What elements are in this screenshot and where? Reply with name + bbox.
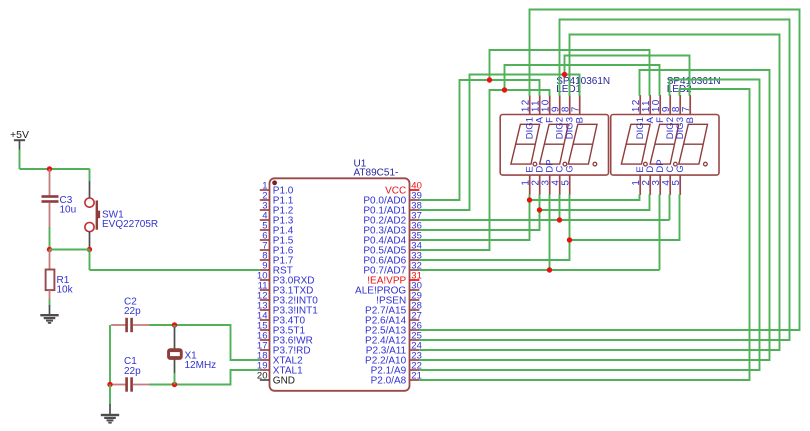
junction net D bbox=[537, 207, 542, 212]
wire net P0.3 segment D bbox=[419, 194, 649, 230]
ground below R1 bbox=[40, 300, 58, 324]
junction +5V/C3 bbox=[47, 166, 52, 171]
svg-text:22p: 22p bbox=[124, 366, 141, 377]
LED2 pin 2 D bbox=[641, 166, 656, 195]
U1 pin 19 XTAL1 bbox=[257, 361, 303, 377]
svg-text:AT89C51-: AT89C51- bbox=[354, 168, 399, 179]
junction net E bbox=[527, 197, 532, 202]
LED1 digit 1 seven-segment outline bbox=[511, 124, 540, 166]
U1 pin 16 P3.6!WR bbox=[257, 331, 313, 347]
wire net P2.4 LED1 DIG2 bbox=[419, 20, 789, 341]
U1 pin 1 P1.0 bbox=[260, 181, 294, 197]
LED2 digit 1 seven-segment outline bbox=[621, 124, 650, 166]
U1 pin 31 !EA!VPP bbox=[367, 271, 422, 287]
capacitor C1 bbox=[111, 356, 150, 391]
wire +5V rail bbox=[20, 150, 90, 170]
wire oscillator left rail bbox=[109, 325, 111, 385]
U1 pin 36 P0.3/AD3 bbox=[363, 221, 421, 237]
capacitor C2 bbox=[111, 297, 150, 333]
power +5V terminal bbox=[10, 129, 29, 151]
LED1 pin 2 D bbox=[530, 166, 545, 195]
U1 pin 27 P2.6/A14 bbox=[365, 311, 422, 327]
wire net P0.2 segment C bbox=[419, 194, 669, 220]
wire C3-SW1 bottom rail bbox=[50, 249, 90, 251]
U1 pin 11 P3.1TXD bbox=[258, 281, 314, 297]
svg-text:5: 5 bbox=[560, 179, 571, 186]
LED2 pin 11 A bbox=[641, 95, 656, 123]
svg-text:22p: 22p bbox=[124, 306, 141, 317]
LED2 pin 1 E bbox=[631, 166, 646, 195]
LED1 pin 8 DIG3 bbox=[560, 95, 575, 139]
resistor R1 bbox=[46, 250, 74, 301]
wire net P0.7 segment DP bbox=[419, 194, 659, 270]
svg-text:5: 5 bbox=[671, 179, 682, 186]
U1 pin 39 P0.0/AD0 bbox=[363, 191, 421, 207]
LED1 pin 3 DP bbox=[540, 159, 555, 195]
U1 pin 26 P2.5/A13 bbox=[365, 321, 422, 337]
wire X1 bottom to XTAL1 bbox=[175, 370, 260, 385]
U1 pin 17 P3.7!RD bbox=[257, 341, 311, 357]
LED2 pin 12 DIG1 bbox=[631, 95, 646, 139]
U1 pin 7 P1.6 bbox=[260, 241, 294, 257]
junction net DP bbox=[547, 267, 552, 272]
switch SW1 bbox=[85, 169, 158, 250]
U1 pin 8 P1.7 bbox=[260, 251, 294, 267]
svg-text:EVQ22705R: EVQ22705R bbox=[102, 219, 158, 230]
U1 pin 4 P1.3 bbox=[260, 211, 294, 227]
svg-text:10k: 10k bbox=[57, 285, 74, 296]
7-segment display LED1 body SP410361N bbox=[500, 76, 610, 175]
svg-text:G: G bbox=[675, 165, 686, 172]
wire C2 to XTAL2 bbox=[149, 325, 260, 360]
U1 pin 6 P1.5 bbox=[260, 231, 294, 247]
crystal X1 bbox=[168, 325, 217, 385]
U1 pin 35 P0.4/AD4 bbox=[363, 231, 421, 247]
capacitor C3 bbox=[42, 169, 77, 250]
junction C1/ground bbox=[107, 382, 112, 387]
U1 pin 10 P3.0RXD bbox=[257, 271, 315, 287]
junction net A bbox=[487, 77, 492, 82]
wire SW1 to RST bbox=[90, 250, 260, 271]
LED2 pin 4 C bbox=[661, 166, 676, 195]
svg-text:20: 20 bbox=[257, 371, 268, 382]
LED2 pin 10 F bbox=[651, 95, 666, 123]
junction X1 top bbox=[172, 322, 177, 327]
U1 pin 37 P0.2/AD2 bbox=[363, 211, 421, 227]
U1 pin 13 P3.3!INT1 bbox=[257, 301, 318, 317]
U1 pin 20 GND bbox=[257, 371, 295, 387]
svg-text:G: G bbox=[565, 165, 576, 172]
junction net C bbox=[557, 217, 562, 222]
U1 pin 15 P3.5T1 bbox=[257, 321, 306, 337]
wire C1 to XTAL1 bbox=[149, 384, 175, 386]
wire net P2.0 LED2 DIG3 bbox=[419, 89, 749, 380]
svg-text:GND: GND bbox=[273, 376, 295, 387]
LED1 pin 7 B bbox=[570, 95, 585, 123]
U1 pin 34 P0.5/AD5 bbox=[363, 241, 421, 257]
wire net P0.5 segment F bbox=[419, 65, 659, 250]
svg-text:10u: 10u bbox=[60, 205, 77, 216]
LED2 pin 5 G bbox=[671, 165, 686, 195]
wire net P2.1 LED2 DIG2 bbox=[419, 80, 759, 371]
junction X1 bottom bbox=[172, 382, 177, 387]
U1 pin 29 !PSEN bbox=[376, 291, 422, 307]
U1 pin 38 P0.1/AD1 bbox=[363, 201, 421, 217]
wire net P0.0 segment A bbox=[419, 50, 649, 200]
wire net P0.6 segment G bbox=[419, 194, 679, 260]
svg-text:12MHz: 12MHz bbox=[185, 360, 217, 371]
LED2 digit 3 seven-segment outline bbox=[679, 124, 708, 166]
LED1 pin 5 G bbox=[560, 165, 575, 195]
U1 pin 24 P2.3/A11 bbox=[366, 341, 422, 357]
wire net P2.2 LED2 DIG1 bbox=[419, 70, 769, 360]
U1 pin 28 P2.7/A15 bbox=[365, 301, 422, 317]
svg-text:7: 7 bbox=[570, 105, 581, 112]
LED1 digit 2 seven-segment outline bbox=[540, 124, 569, 166]
U1 pin 21 P2.0/A8 bbox=[371, 371, 422, 387]
LED1 digit 3 seven-segment outline bbox=[568, 124, 597, 166]
U1 pin 5 P1.4 bbox=[260, 221, 294, 237]
U1 pin 9 RST bbox=[260, 261, 293, 277]
LED2 pin 7 B bbox=[681, 95, 696, 123]
LED2 pin 9 DIG2 bbox=[661, 95, 676, 139]
svg-text:7: 7 bbox=[681, 105, 692, 112]
U1 pin 14 P3.4T0 bbox=[257, 311, 306, 327]
wire net P0.4 segment E bbox=[419, 194, 639, 240]
microcontroller U1 AT89C51 body bbox=[270, 158, 410, 390]
wire net P2.3 LED1 DIG3 bbox=[419, 35, 779, 351]
U1 pin 3 P1.2 bbox=[260, 201, 294, 217]
U1 pin 18 XTAL2 bbox=[257, 351, 303, 367]
svg-text:B: B bbox=[575, 117, 586, 123]
svg-text:B: B bbox=[685, 117, 696, 123]
U1 pin 2 P1.1 bbox=[260, 191, 294, 207]
wire net P2.5 LED1 DIG1 bbox=[419, 10, 799, 331]
ground below C1 bbox=[101, 385, 119, 424]
junction SW1/RST bbox=[87, 247, 92, 252]
LED1 pin 11 A bbox=[530, 95, 545, 123]
svg-text:P2.0/A8: P2.0/A8 bbox=[371, 376, 407, 387]
LED1 pin 12 DIG1 bbox=[520, 95, 535, 139]
LED2 pin 8 DIG3 bbox=[671, 95, 686, 139]
U1 pin 25 P2.4/A12 bbox=[365, 331, 422, 347]
U1 pin 23 P2.2/A10 bbox=[365, 351, 422, 367]
LED1 pin 9 DIG2 bbox=[550, 95, 565, 139]
junction net F bbox=[502, 87, 507, 92]
7-segment display LED2 body SP410361N bbox=[611, 76, 721, 175]
U1 pin 12 P3.2!INT0 bbox=[257, 291, 318, 307]
U1 pin 32 P0.7/AD7 bbox=[363, 261, 421, 277]
LED2 pin 3 DP bbox=[651, 159, 666, 195]
junction net B bbox=[562, 72, 567, 77]
LED1 pin 10 F bbox=[540, 95, 555, 123]
LED2 digit 2 seven-segment outline bbox=[650, 124, 679, 166]
LED1 pin 4 C bbox=[550, 166, 565, 195]
U1 pin 22 P2.1/A9 bbox=[371, 361, 422, 377]
U1 pin 30 ALE!PROG bbox=[355, 281, 422, 297]
U1 pin 40 VCC bbox=[385, 181, 422, 197]
wire net P0.1 segment B bbox=[419, 56, 689, 211]
U1 pin 33 P0.6/AD6 bbox=[363, 251, 421, 267]
LED1 pin 1 E bbox=[520, 166, 535, 195]
junction C3/R1 bbox=[47, 247, 52, 252]
junction net G bbox=[567, 237, 572, 242]
